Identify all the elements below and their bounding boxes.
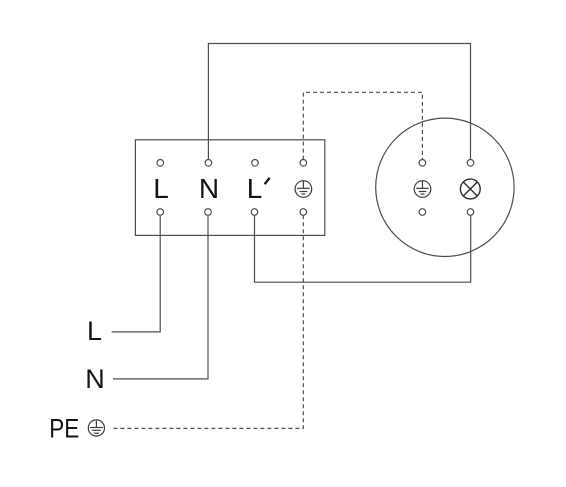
node L top <box>157 160 164 167</box>
node lamp bottom <box>467 209 474 216</box>
wire N-top: from N terminal up, across, down to lamp terminal <box>208 44 470 160</box>
node lamp top <box>467 160 474 167</box>
node N top <box>205 160 212 167</box>
svg-text:L: L <box>87 316 102 346</box>
svg-text:L: L <box>153 173 169 204</box>
earth symbol in lamp <box>414 181 431 198</box>
lamp symbol (circle with X) <box>460 179 480 199</box>
svg-text:L: L <box>247 173 263 204</box>
node L bottom <box>157 209 164 216</box>
node N bottom <box>205 209 212 216</box>
node L' top <box>252 160 259 167</box>
terminal block outline <box>135 140 324 236</box>
node lamp earth bottom <box>419 209 426 216</box>
svg-text:PE: PE <box>49 414 79 444</box>
wire PE-bottom dashed: from block earth terminal down and left to PE symbol <box>112 215 303 428</box>
svg-text:N: N <box>199 173 219 204</box>
wire L'-bottom: from L' terminal down, right, up to lamp terminal <box>255 215 471 282</box>
wire N-bottom: from N terminal down and left to N label <box>113 215 208 379</box>
node L' bottom <box>251 209 258 216</box>
earth symbol in terminal block <box>295 181 312 198</box>
PE earth symbol <box>88 420 104 436</box>
wire PE-top dashed: from block earth terminal up, across, down to lamp earth terminal <box>303 92 422 159</box>
svg-text:N: N <box>85 364 105 394</box>
wire L-bottom: from L terminal down and left to L label <box>112 215 161 332</box>
node earth bottom <box>300 209 307 216</box>
node lamp earth top <box>419 160 426 167</box>
prime mark of L' <box>265 178 270 184</box>
node earth top <box>300 160 307 167</box>
lamp fixture circle <box>376 118 514 256</box>
